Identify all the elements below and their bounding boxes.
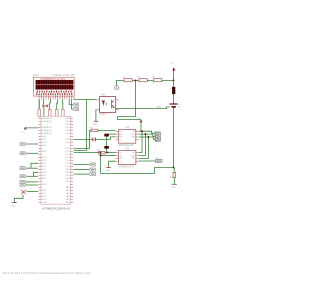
IC3 pin names right column <box>65 118 70 204</box>
net flag RX left of IC3 <box>20 180 27 183</box>
resistor R4 vertical <box>61 109 64 116</box>
svg-text:2017-10-03 17:20 /f=0.65 C:\: 2017-10-03 17:20 /f=0.65 C:\EAGLE\patch\… <box>3 271 91 275</box>
wire IC2 pin4 out to jumper <box>139 160 155 162</box>
svg-text:TUXGR_16X2_R2: TUXGR_16X2_R2 <box>52 73 75 77</box>
junction lane 1 <box>141 130 143 132</box>
net flag AN2 right of IC3 <box>74 168 96 171</box>
wire R11 to IC2 input <box>105 152 116 154</box>
wire net flag PDI to IC3 <box>27 143 38 145</box>
wire LCD pin to resistor R2 <box>49 99 52 109</box>
wire IC3 to R10 lane <box>74 131 91 149</box>
wire loop rail to IC2 lane <box>101 168 174 174</box>
svg-text:VCC: VCC <box>21 132 26 134</box>
capacitor C1 polarized blob <box>104 134 115 137</box>
ground symbol below IC2 <box>106 168 111 172</box>
resistor R3 vertical <box>55 109 58 116</box>
capacitor C2 <box>74 138 96 145</box>
svg-text:GND: GND <box>42 202 47 204</box>
svg-text:PA4(AD4): PA4(AD4) <box>42 129 52 132</box>
IC3 pin stubs left <box>39 118 42 202</box>
junction lane 3 <box>147 136 149 138</box>
ground symbol bottom right <box>171 184 177 189</box>
wire opto collector to battery <box>116 107 170 109</box>
optocoupler pin stubs <box>97 100 119 110</box>
svg-text:NC: NC <box>132 137 135 139</box>
wire lane to IC2 pin2 <box>101 155 116 157</box>
ground symbol below optocoupler <box>93 121 98 125</box>
IC1 pin stubs <box>116 131 139 140</box>
junction lane R11 <box>100 152 102 154</box>
wire IC2 out 3 up lane <box>139 137 149 158</box>
junction rail top <box>173 80 175 82</box>
ground symbol bottom-left <box>11 203 17 208</box>
capacitor C3 polarized blob <box>104 146 109 149</box>
resistor R1 vertical <box>38 109 41 116</box>
wire LCD pin15 to net flag <box>72 99 73 109</box>
resistor R6 vertical below rail <box>170 168 176 179</box>
junction R11 output <box>106 152 108 154</box>
wire net flag SCL to IC3 <box>27 175 38 177</box>
net flag LCD_E <box>73 108 79 111</box>
resistor R2 vertical <box>48 109 51 116</box>
svg-text:GND: GND <box>65 118 70 120</box>
wire LCD pin14 to net flag <box>69 99 72 104</box>
wire IC3 extra left bend 1 <box>31 163 38 168</box>
svg-text:OUT: OUT <box>130 155 135 157</box>
jumper JP1 <box>155 158 162 163</box>
LCD 16 pin stubs <box>39 96 74 99</box>
wire rail battery down to corner <box>173 108 175 168</box>
svg-text:V-: V- <box>120 140 122 142</box>
svg-text:PA5(AD5): PA5(AD5) <box>42 132 52 135</box>
wire net flag SDA to IC3 <box>27 167 38 169</box>
svg-text:PC817: PC817 <box>100 113 108 116</box>
wire LCD pin to resistor R4 <box>61 99 64 109</box>
net flag SCL left of IC3 <box>20 175 27 178</box>
resistor R2 horizontal <box>138 77 148 82</box>
wire opto cathode to ground <box>95 110 98 121</box>
trimmer R5 bowtie <box>43 105 51 108</box>
net flag TXD left of IC3 <box>20 152 27 155</box>
wire net flag TXD to IC3 <box>27 152 38 154</box>
junction lane IC2 pin2 <box>100 155 102 157</box>
VCC supply arrow top right <box>169 62 175 70</box>
svg-text:IC2: IC2 <box>125 147 130 151</box>
wire LCD pin3 to trimmer <box>42 99 44 104</box>
IC3 pin stubs right <box>71 118 74 202</box>
VCC supply arrow top-left of IC3 <box>21 127 27 134</box>
svg-text:IN-: IN- <box>120 134 123 136</box>
microcontroller IC3 body <box>41 116 71 204</box>
wire VCC arrow to IC1 pin <box>140 122 142 131</box>
svg-text:IN-: IN- <box>119 155 122 157</box>
wire IC3 to R11 <box>74 152 99 154</box>
IC3 pin names left column <box>42 117 52 204</box>
svg-text:ATXMEGA128A3-AU: ATXMEGA128A3-AU <box>42 207 70 211</box>
junction on resistor row <box>135 80 137 82</box>
connector SV1 <box>155 132 161 142</box>
net flag AN3 right of IC3 <box>74 173 96 176</box>
svg-text:IC1: IC1 <box>125 125 130 129</box>
wire IC3 extra left bend 2 <box>34 172 39 176</box>
wire IC1 out2 to connector <box>139 134 155 136</box>
junction rail bottom <box>173 167 175 169</box>
IC2 pin stubs <box>116 153 139 162</box>
wire LCD pin to resistor R1 <box>38 99 40 109</box>
svg-text:DIS1: DIS1 <box>33 73 39 77</box>
diode D1 dark bar <box>172 87 175 94</box>
wire opto anode lane to IC3 <box>74 100 97 151</box>
wire R10 to IC1 input <box>98 130 116 132</box>
port circle symbol left end <box>115 86 119 90</box>
net flag PDI left of IC3 <box>20 143 27 146</box>
wire LCD pin to resistor R3 <box>56 99 59 109</box>
net flag LCD_RS <box>73 103 79 106</box>
wire C2 to IC1 pin3 <box>95 137 115 140</box>
net flag TX left of IC3 <box>20 184 27 187</box>
wire IC2 out 2 up lane <box>139 134 146 155</box>
net flag SDA left of IC3 <box>20 167 27 170</box>
wire crystal to IC3 <box>27 190 39 192</box>
junction lane 2 <box>144 133 146 135</box>
svg-text:PA1(AD1): PA1(AD1) <box>42 120 52 123</box>
wire resistor row <box>117 81 174 86</box>
LCD glyph text rows <box>36 90 72 95</box>
wire VCC to IC3 <box>25 128 38 130</box>
wire LCD pin1 to resistor R1 <box>38 99 40 109</box>
op-amp IC1 body <box>119 130 136 144</box>
wire net flag RX to IC3 <box>27 181 38 183</box>
wire VCC arrow down to row <box>173 71 175 81</box>
svg-text:OK1: OK1 <box>101 93 107 97</box>
wire row to dark component <box>173 81 175 87</box>
svg-text:VCC: VCC <box>169 62 174 64</box>
svg-text:PA0(AD0): PA0(AD0) <box>42 117 52 120</box>
svg-text:GND: GND <box>171 187 176 189</box>
wire R6 to ground <box>173 178 175 185</box>
wire C3 to R11 junction <box>106 149 108 153</box>
svg-text:GND: GND <box>11 205 16 207</box>
wire C1 lane down <box>106 137 108 147</box>
wire snake from junction to VCC node <box>118 81 142 120</box>
wire IC2 out 1 up lane <box>139 131 142 152</box>
svg-text:OUT: OUT <box>131 134 136 136</box>
wire LCD pin16 to opto lane <box>74 98 87 100</box>
wire crystal to ground <box>14 195 23 203</box>
svg-text:MCP6231-E/P: MCP6231-E/P <box>119 166 134 168</box>
svg-text:BAT: BAT <box>157 105 162 108</box>
VCC arrow above IC1 <box>137 118 143 122</box>
wire lane down from R11 <box>100 153 102 174</box>
LCD display DIS1 body <box>33 77 74 96</box>
svg-text:NC: NC <box>132 158 135 160</box>
op-amp IC2 body <box>119 151 136 165</box>
wire net flag TX to IC3 <box>27 184 38 186</box>
wire IC1 out3 to connector <box>139 137 155 139</box>
wire trimmer down to IC3 <box>43 107 45 116</box>
wire dark bar to battery <box>173 94 175 104</box>
LCD pixel grid <box>36 80 74 90</box>
resistor R1 horizontal <box>123 77 133 82</box>
resistor R3 horizontal <box>152 77 162 82</box>
svg-text:V-: V- <box>119 161 121 163</box>
resistor R10 horizontal <box>89 128 98 132</box>
battery G1 <box>170 104 182 109</box>
wire IC1 out1 to connector <box>139 131 155 133</box>
net flag AN1 right of IC3 <box>74 163 96 166</box>
optocoupler OK1 body <box>100 97 116 113</box>
svg-text:GND: GND <box>93 124 98 126</box>
resistor R11 horizontal <box>97 150 106 154</box>
wire IC2 pin4 to ground <box>109 161 116 167</box>
svg-text:PA3(AD3): PA3(AD3) <box>42 126 52 129</box>
crystal Q1 <box>21 190 26 194</box>
svg-text:GND: GND <box>106 170 111 172</box>
